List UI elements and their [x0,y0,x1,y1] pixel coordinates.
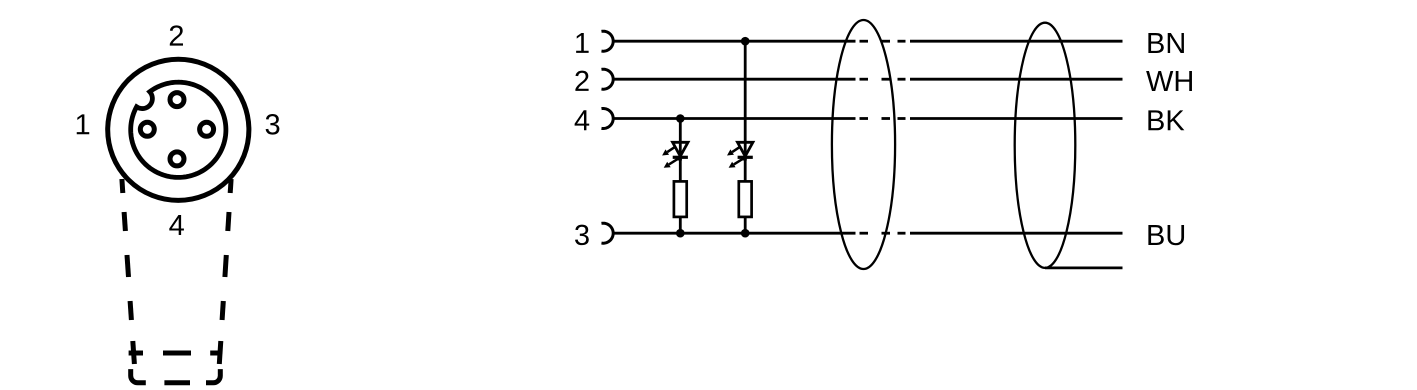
connector face outer circle [108,59,249,200]
resistor R_right [739,181,752,217]
branch wire from pin 4 line [679,119,682,234]
pin 4 number [575,110,590,130]
junction pin3-right branch [741,229,750,238]
pin 1 number [576,33,589,53]
pin 2 number [575,71,588,91]
connector body dashed outline left [122,179,134,364]
connector body dashed end outline [131,369,221,383]
pin 1 socket contact [601,31,613,51]
junction pin4-branch [676,114,685,123]
pin 3 socket contact [601,223,613,243]
connector body coupling edge dashed line [129,351,221,356]
pin 2 contact [170,93,184,107]
wire label BU [1148,225,1184,245]
cable jacket ellipse 2 [1015,23,1076,268]
wire BK (pin 4) [614,117,1123,120]
wire label BN [1148,33,1184,53]
pin 3 contact [200,122,214,136]
pin label 4 [169,215,184,235]
branch wire from pin 1 line [744,41,747,233]
cable jacket ellipse 1 [832,20,895,269]
pin label 1 [77,114,90,134]
resistor R_left [674,181,687,217]
shield/drain line at cable end [1045,266,1123,269]
wire WH (pin 2) [614,78,1123,81]
junction pin3-left branch [676,229,685,238]
wire label BK [1148,110,1184,130]
pin 4 contact [170,152,184,166]
LED D_right [727,142,753,168]
wire BN (pin 1) [614,40,1123,43]
pin label 2 [170,25,183,45]
wire label WH [1146,71,1192,91]
connector body dashed outline right [219,179,231,364]
junction pin1-branch [741,37,750,46]
wire BU (pin 3) [614,232,1123,235]
pin 1 contact [140,122,154,136]
pin 3 number [575,225,589,246]
LED D_left [662,142,688,168]
connector face inner circle with keying notch [131,82,226,177]
pin 4 socket contact [601,109,613,129]
pin label 3 [266,114,280,135]
pin 2 socket contact [601,69,613,89]
